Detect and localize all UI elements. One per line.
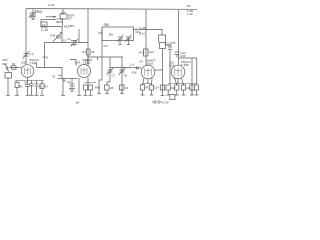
svg-text:C22: C22 <box>165 42 170 46</box>
svg-text:R6: R6 <box>145 87 149 90</box>
svg-text:C-18: C-18 <box>48 3 55 7</box>
capacitor C-23 cluster <box>175 51 187 58</box>
resistor R-10 <box>89 85 93 90</box>
svg-text:R2: R2 <box>19 85 23 88</box>
capacitor C-8 trimmer <box>119 68 128 78</box>
node cathode junction <box>61 78 63 80</box>
svg-text:C6: C6 <box>67 80 71 84</box>
wire heater lead <box>62 79 64 96</box>
svg-text:C-49: C-49 <box>41 28 48 32</box>
svg-text:C9: C9 <box>125 87 129 90</box>
ground <box>35 94 39 96</box>
ground <box>69 89 75 92</box>
wire <box>109 57 111 82</box>
wire tube3 bottom <box>147 79 149 84</box>
ground <box>141 94 145 96</box>
capacitor C-4A <box>25 84 30 95</box>
svg-text:R8: R8 <box>110 87 114 90</box>
wire tick <box>97 57 99 60</box>
wire <box>62 19 64 27</box>
ground <box>175 94 179 96</box>
svg-text:R16: R16 <box>181 54 187 58</box>
svg-text:C48: C48 <box>50 34 56 38</box>
ground <box>30 94 34 96</box>
ground <box>166 94 170 96</box>
svg-text:Pad: Pad <box>95 86 100 90</box>
svg-text:6.3V: 6.3V <box>163 101 169 105</box>
wire input <box>9 67 21 69</box>
resistor R-12 cluster <box>139 47 154 57</box>
capacitor C-2A variable on grid line <box>23 51 30 59</box>
transformer L-1 box <box>5 73 12 79</box>
tube V-1 6SK7 <box>21 65 34 78</box>
svg-text:B.P.: B.P. <box>70 24 75 28</box>
wire <box>168 83 197 85</box>
svg-text:C14: C14 <box>154 87 159 90</box>
resistor R-9 <box>84 85 88 90</box>
ground AVC lead <box>161 95 165 97</box>
wire pin stubs V4 <box>175 78 184 85</box>
wire <box>37 67 63 69</box>
resistor R-18 <box>175 84 179 96</box>
svg-text:C-20: C-20 <box>140 26 147 30</box>
wire <box>41 26 62 28</box>
svg-text:C9: C9 <box>139 60 143 64</box>
svg-text:5A: 5A <box>187 4 191 8</box>
wire mixer arrow <box>46 16 54 18</box>
wire <box>61 68 63 79</box>
capacitor C-16 <box>194 58 198 95</box>
svg-text:BFW: BFW <box>57 20 64 24</box>
ground <box>89 94 93 96</box>
wire to AF arrow <box>134 29 163 31</box>
wire <box>62 78 78 80</box>
wire <box>40 20 42 28</box>
wire <box>191 58 193 95</box>
ground <box>30 17 36 20</box>
ground <box>77 94 81 96</box>
svg-text:SW: SW <box>104 23 109 27</box>
wire <box>85 82 97 84</box>
wire <box>179 57 198 59</box>
ground <box>40 94 44 96</box>
svg-text:C11: C11 <box>104 45 109 48</box>
wire main vertical to V1 grid <box>25 9 27 65</box>
svg-text:R1: R1 <box>12 62 16 66</box>
ground <box>182 94 186 96</box>
svg-text:C8: C8 <box>124 73 128 77</box>
wire <box>90 90 92 95</box>
resistor on AVC line lower <box>160 85 164 90</box>
wire tube1 bottom lead <box>27 77 29 84</box>
fuse box bottom <box>170 95 175 100</box>
tube V-2 6SQ7 <box>78 65 91 78</box>
wire <box>61 27 63 43</box>
wire bias bus <box>15 80 44 82</box>
tube V-3 6K6 <box>141 65 155 79</box>
resistor R-19 <box>190 84 194 95</box>
capacitor C-4 <box>30 81 34 96</box>
resistor pad cluster <box>95 80 101 93</box>
wire <box>121 57 123 93</box>
wire <box>162 49 164 96</box>
capacitor C coupling <box>137 67 139 70</box>
ground <box>84 94 88 96</box>
capacitor C-5 <box>35 81 39 96</box>
wire stub <box>58 78 63 80</box>
wire <box>85 90 87 95</box>
svg-text:R1: R1 <box>45 58 49 60</box>
capacitor trimmers inside box <box>118 35 132 45</box>
svg-text:C3: C3 <box>63 40 67 43</box>
wire B+ top bus <box>26 8 197 11</box>
capacitor C-22 cluster <box>165 41 176 84</box>
svg-text:C8: C8 <box>91 50 95 54</box>
antenna symbol <box>5 64 9 72</box>
svg-text:L-6: L-6 <box>130 63 134 67</box>
svg-text:T 12A: T 12A <box>83 61 91 65</box>
wire <box>44 43 46 68</box>
wire <box>143 83 153 85</box>
svg-text:GT: GT <box>68 17 72 21</box>
wire screen feed vertical <box>87 9 89 66</box>
svg-text:R3: R3 <box>44 86 48 89</box>
wire det feed <box>110 67 131 69</box>
wire tube4 bottom <box>177 79 179 84</box>
ground <box>190 94 194 96</box>
svg-text:C15: C15 <box>186 87 191 90</box>
inductor L-3 box <box>41 22 47 27</box>
wire plate out <box>155 69 163 71</box>
wire <box>88 56 123 58</box>
wire pin stubs V3 <box>143 78 153 85</box>
wire staple split <box>159 35 166 43</box>
node <box>87 82 89 84</box>
svg-text:C4: C4 <box>67 38 71 41</box>
svg-text:B+: B+ <box>76 100 80 104</box>
capacitor C-3 variable <box>71 39 79 47</box>
svg-text:C5: C5 <box>39 86 43 89</box>
svg-text:C13: C13 <box>149 50 155 54</box>
resistor R-1 input <box>12 66 17 69</box>
svg-text:R15: R15 <box>171 41 176 45</box>
svg-text:12A: 12A <box>61 10 66 14</box>
svg-text:R7: R7 <box>82 50 86 54</box>
resistor R-3 <box>40 81 44 96</box>
wire <box>45 42 89 44</box>
resistor R-16 <box>140 84 144 96</box>
svg-text:C21: C21 <box>135 30 141 34</box>
resistor R-13 <box>160 43 166 49</box>
ground <box>150 94 154 96</box>
ground <box>6 94 10 96</box>
capacitor C-2 trimmer <box>53 33 62 42</box>
ground <box>26 94 30 96</box>
node screen junction <box>87 56 89 58</box>
battery 6.3V symbol <box>152 100 169 105</box>
svg-text:T 35Z: T 35Z <box>181 63 189 67</box>
svg-text:T 12B: T 12B <box>30 61 38 65</box>
capacitor C-18 coupling box <box>60 14 67 19</box>
tube V-4 6SQ7GT <box>171 65 185 79</box>
ground <box>15 94 19 96</box>
resistor R-17 <box>166 85 170 95</box>
svg-text:B4: B4 <box>109 33 113 37</box>
svg-text:C3A: C3A <box>21 61 27 65</box>
resistor R-8 <box>105 82 111 93</box>
capacitor C-6 <box>70 79 75 89</box>
wire IF can left <box>99 27 102 80</box>
svg-text:C7: C7 <box>112 73 116 77</box>
svg-text:R12: R12 <box>139 51 145 55</box>
capacitor C-14 <box>149 84 153 96</box>
wire <box>7 78 9 95</box>
svg-text:R18: R18 <box>132 72 137 75</box>
wire cathode lead <box>78 78 80 96</box>
wire tick <box>43 56 45 58</box>
svg-text:25L6: 25L6 <box>147 62 154 66</box>
wire grid hook <box>70 60 76 66</box>
svg-text:R17: R17 <box>171 87 176 90</box>
ground <box>61 94 65 96</box>
wire grid in <box>133 67 142 70</box>
wire <box>41 19 56 21</box>
capacitor C-15 <box>181 84 185 96</box>
ground <box>195 94 199 96</box>
wire tick <box>36 64 38 68</box>
capacitor C-1 trimmer <box>29 9 37 18</box>
transformer T-1 oscillator box <box>102 27 134 41</box>
svg-text:L-30: L-30 <box>187 12 193 16</box>
wire plate feed V3 <box>145 10 147 65</box>
resistor R-2 <box>15 81 19 96</box>
svg-text:C6: C6 <box>52 76 56 79</box>
wire <box>78 29 80 43</box>
wire osc grid tick <box>62 9 64 14</box>
wire plate feed V4 <box>178 10 180 65</box>
node <box>147 82 149 84</box>
svg-text:C-2: C-2 <box>29 52 34 56</box>
wire <box>87 78 89 85</box>
node <box>177 82 179 84</box>
wire box feed <box>98 32 102 34</box>
resistor R-7 on screen line <box>86 49 90 55</box>
capacitor C-7 trimmer <box>107 68 116 78</box>
wire AVC vertical <box>161 30 163 36</box>
capacitor C-9 lower <box>120 85 125 93</box>
